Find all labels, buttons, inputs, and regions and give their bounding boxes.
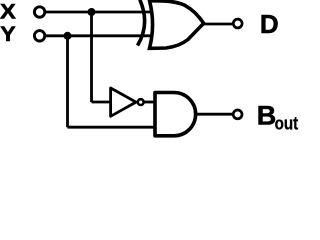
- not-gate U2 triangle: [111, 88, 136, 116]
- wire NOT bubble to AND gate: [144, 101, 157, 104]
- wire X branch vertical: [90, 12, 93, 102]
- node junction dot on X wire: [88, 8, 96, 16]
- wire AND bottom input: [68, 126, 158, 129]
- svg-text:D: D: [260, 9, 279, 39]
- svg-text:B: B: [257, 101, 277, 131]
- svg-text:X: X: [0, 0, 17, 23]
- wire X input to XOR: [46, 11, 156, 14]
- wire Y input to XOR: [46, 34, 156, 37]
- svg-text:out: out: [275, 114, 299, 134]
- terminal Bout: [233, 110, 242, 119]
- xor-gate U1 input arc: [138, 0, 145, 45]
- node junction dot on Y wire: [64, 32, 72, 40]
- wire NOT input: [92, 101, 113, 104]
- terminal Y: [34, 31, 44, 41]
- and-gate U3: [155, 92, 196, 135]
- wire XOR output to D terminal: [202, 23, 232, 26]
- svg-text:Y: Y: [0, 22, 15, 46]
- not-gate U2 bubble: [138, 99, 144, 105]
- terminal D: [233, 19, 242, 28]
- xor-gate U1 body: [150, 1, 204, 49]
- terminal X: [34, 7, 44, 17]
- wire Y branch vertical: [66, 36, 69, 127]
- wire AND output to Bout terminal: [195, 113, 232, 116]
